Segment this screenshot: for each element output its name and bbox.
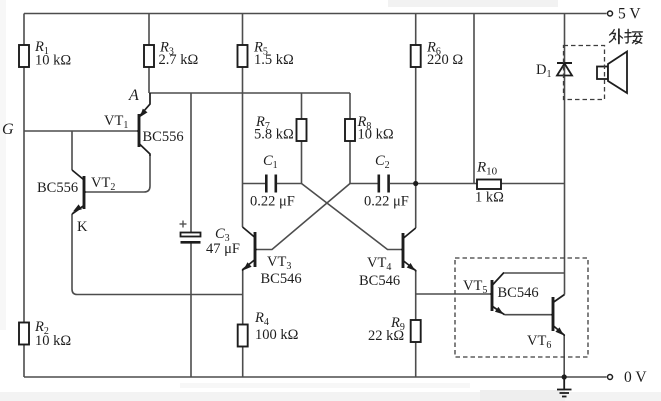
dashed box around VT5/VT6 <box>455 258 588 357</box>
transistor VT3 (BC546 NPN) <box>243 227 302 287</box>
wire VT5 emitter to VT6 base <box>505 314 552 316</box>
wire G line <box>24 130 137 132</box>
capacitor C3 (polarized) <box>180 221 240 258</box>
wire +5V top rail <box>24 13 607 15</box>
wire R7 bottom lead <box>301 140 303 184</box>
terminal 5V <box>608 6 642 23</box>
transistor VT5 (BC546 NPN) <box>463 273 539 315</box>
resistor R2 <box>19 319 71 349</box>
ground <box>557 377 572 397</box>
svg-text:BC546: BC546 <box>261 271 302 287</box>
resistor R8 <box>345 114 394 143</box>
resistor R9 <box>368 315 421 344</box>
svg-text:K: K <box>77 219 88 235</box>
transistor VT1 (BC556 PNP) <box>104 93 184 156</box>
wire R3 top lead <box>148 14 150 47</box>
resistor R6 <box>411 40 464 69</box>
wire R6 top lead <box>415 14 417 47</box>
label 外接 (external) <box>610 29 643 44</box>
svg-text:5.8 kΩ: 5.8 kΩ <box>254 127 294 143</box>
wire C3 top lead from node A <box>190 93 192 233</box>
wire C1 right lead <box>277 183 302 185</box>
svg-text:1 kΩ: 1 kΩ <box>475 190 504 206</box>
wire left branch vertical (R1/R2) <box>23 14 25 378</box>
wire VT5 base line <box>416 293 490 295</box>
svg-text:BC556: BC556 <box>37 180 78 196</box>
wire C2 right lead to junction <box>390 183 416 185</box>
resistor R1 <box>19 39 71 69</box>
svg-text:10 kΩ: 10 kΩ <box>35 53 71 69</box>
dashed box around D1/speaker (external connection) <box>564 46 605 100</box>
transistor VT4 (BC546 NPN) <box>359 228 416 289</box>
wire VT4 emitter down to R9 <box>415 272 417 321</box>
svg-text:BC546: BC546 <box>359 273 400 289</box>
wire VT5 collector horizontal <box>504 272 565 274</box>
wire VT6 emitter to 0V rail <box>563 336 565 377</box>
wire C1 left lead <box>243 183 266 185</box>
svg-text:G: G <box>2 121 14 138</box>
wire VT3 emitter down through R4 to 0V rail <box>242 271 244 325</box>
svg-text:0.22 μF: 0.22 μF <box>250 194 295 210</box>
svg-text:BC556: BC556 <box>143 129 184 145</box>
wire VT3 collector vertical <box>242 184 244 228</box>
wire cross-coupling C2/R8 node to VT3 base <box>257 184 350 250</box>
wire VT2 collector drop from G line <box>71 131 73 170</box>
wire R9 bottom lead <box>415 341 417 377</box>
wire R3 bottom lead to node A <box>148 66 150 93</box>
transistor VT2 (BC556 PNP) <box>37 170 115 214</box>
wire R5 bottom lead down to C1 corner <box>242 66 244 184</box>
resistor R4 <box>238 310 299 347</box>
wire from +5V rail down to R10 left node <box>473 14 475 184</box>
wire 0V bottom rail <box>24 376 607 378</box>
resistor R7 <box>254 114 307 143</box>
wire VT1 collector to VT2 base <box>86 156 150 192</box>
svg-text:47 μF: 47 μF <box>206 241 240 257</box>
svg-text:0 V: 0 V <box>624 369 647 386</box>
resistor R3 <box>144 40 199 69</box>
wire cross-coupling C1/R7 node to VT4 base <box>302 184 402 250</box>
wire node A horizontal <box>149 92 350 94</box>
wire K line: VT2 emitter down and right to VT3 emitter <box>72 214 243 295</box>
wire R8 bottom lead <box>349 140 351 184</box>
svg-text:10 kΩ: 10 kΩ <box>358 127 394 143</box>
wire C3 bottom lead to 0V rail <box>190 244 192 378</box>
transistor VT6 (NPN) <box>527 295 565 352</box>
wire R10 line from junction to speaker line <box>416 183 565 185</box>
wire C2 left lead <box>350 183 378 185</box>
svg-text:5 V: 5 V <box>618 6 641 23</box>
svg-text:10 kΩ: 10 kΩ <box>35 333 71 349</box>
wire R5 top lead <box>242 14 244 47</box>
terminal 0V <box>608 369 648 386</box>
capacitor C1 <box>250 153 295 210</box>
svg-text:2.7 kΩ: 2.7 kΩ <box>159 52 199 68</box>
svg-text:100 kΩ: 100 kΩ <box>255 327 299 343</box>
svg-text:0.22 μF: 0.22 μF <box>364 194 409 210</box>
resistor R10 <box>475 160 504 206</box>
diode D1 <box>536 62 572 80</box>
wire R4 bottom lead <box>242 346 244 377</box>
wire R8 top lead <box>349 93 351 119</box>
resistor R5 <box>238 40 295 69</box>
svg-text:220 Ω: 220 Ω <box>427 52 463 68</box>
speaker <box>597 52 627 94</box>
svg-text:22 kΩ: 22 kΩ <box>368 328 404 344</box>
wire D1/speaker vertical from +5V rail <box>564 14 566 295</box>
svg-text:A: A <box>128 87 139 104</box>
junction dot 0V/ground node <box>562 374 567 379</box>
junction dot C2/R6/R10 node <box>413 181 418 186</box>
capacitor C2 <box>364 153 409 210</box>
svg-text:BC546: BC546 <box>498 285 539 301</box>
svg-text:1.5 kΩ: 1.5 kΩ <box>254 52 294 68</box>
wire VT4 collector vertical to junction <box>415 184 417 229</box>
wire R7 top lead <box>301 93 303 119</box>
wire R6 bottom lead to junction <box>415 66 417 184</box>
